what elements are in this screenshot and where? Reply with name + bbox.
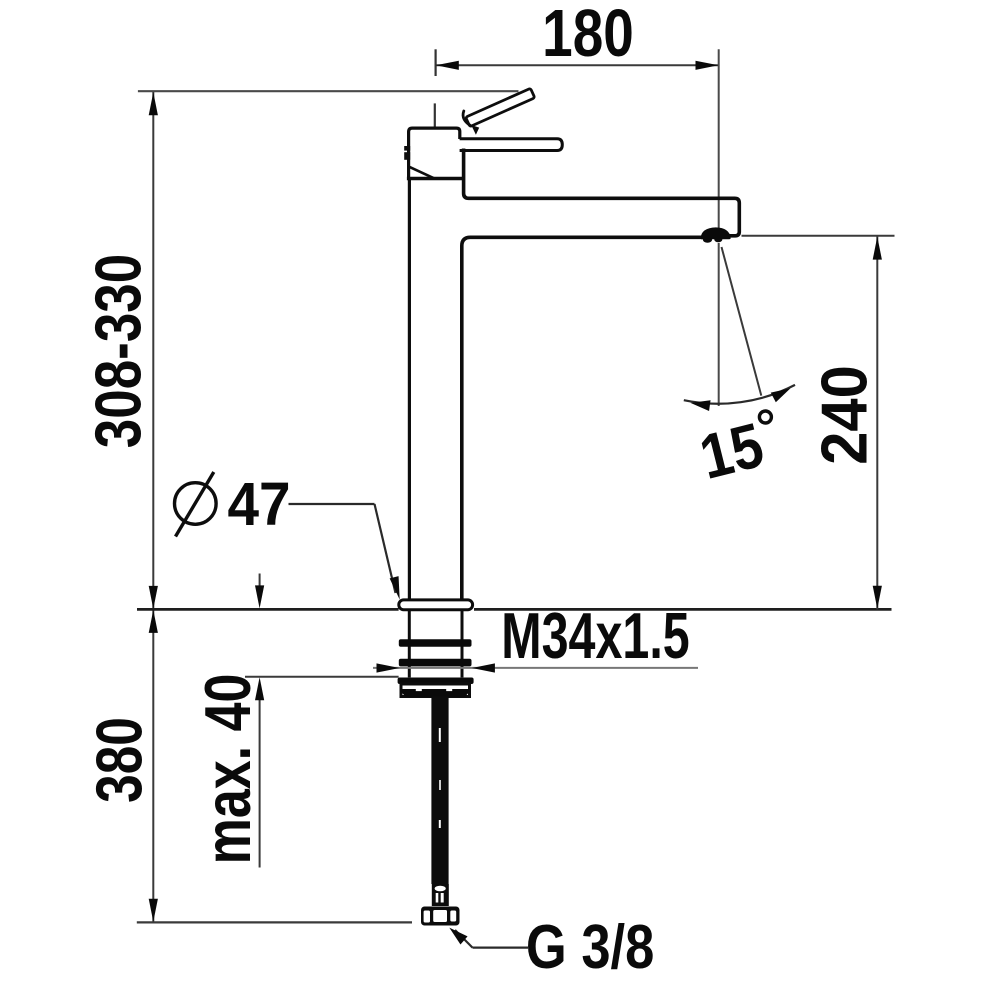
angle leg: 15 degree slant <box>722 247 762 396</box>
svg-text:max. 40: max. 40 <box>192 674 264 865</box>
svg-text:M34x1.5: M34x1.5 <box>501 600 689 673</box>
dimension line: left vertical (308-330 and 380) <box>152 92 154 922</box>
dimension line: max 40 upper segment <box>259 574 261 593</box>
faucet body: left nub upper <box>404 146 410 151</box>
extension line: top reference (top of lever) <box>138 90 519 92</box>
leader: diameter 47 diagonal <box>375 504 396 593</box>
arrowhead: 180 left <box>436 61 459 70</box>
svg-text:380: 380 <box>84 717 156 803</box>
faucet body: cartridge block <box>409 128 460 179</box>
arrowhead: 240 top (up) <box>873 237 882 260</box>
extension tick: faucet axis lower <box>434 103 436 127</box>
thread ring 1 <box>399 639 472 647</box>
pipe fleck 2 <box>439 780 441 790</box>
arrowhead: left dim mid (up) <box>149 610 158 633</box>
spout: neck, top edge and outlet end <box>464 149 740 236</box>
shank tube right <box>461 610 464 678</box>
fitting slot left <box>436 893 439 903</box>
dimension line: max 40 lower segment <box>259 694 261 868</box>
arrowhead: left dim bottom (down) <box>149 899 158 922</box>
extension tick: faucet axis upper <box>435 49 437 76</box>
spout: bottom edge and column right edge <box>462 237 705 599</box>
G3/8 leader diagonal <box>455 930 473 948</box>
diameter symbol circle <box>175 483 217 525</box>
leader: diameter 47 horizontal <box>289 503 375 505</box>
arrowhead: diameter 47 <box>390 576 405 601</box>
degree symbol <box>759 411 771 423</box>
pipe fleck 1 <box>439 728 441 742</box>
mounting nut body <box>401 684 470 697</box>
aerator drip right <box>714 237 722 242</box>
extension line: countertop right <box>474 608 892 611</box>
G3/8 end nut <box>421 907 460 926</box>
pipe fleck 3 <box>439 820 441 828</box>
G3/8 leader horizontal <box>473 946 529 948</box>
faucet body: chamfer line <box>409 167 434 179</box>
nut window left <box>424 911 430 923</box>
angle arc: 15 degrees <box>684 385 795 404</box>
pipe end fitting <box>432 884 449 906</box>
faucet body: left nub lower <box>404 152 410 160</box>
diameter symbol slash <box>176 472 214 537</box>
arrowhead: 240 bottom (down) <box>873 586 882 609</box>
svg-text:180: 180 <box>542 0 634 70</box>
arrowhead: left dim mid (down) <box>149 586 158 609</box>
svg-text:240: 240 <box>808 365 881 465</box>
nut notch left <box>416 689 422 692</box>
svg-text:G 3/8: G 3/8 <box>526 913 654 982</box>
fitting highlight arc <box>435 886 446 892</box>
lever: base hook <box>463 111 470 125</box>
lever: base wedge <box>471 125 479 135</box>
aerator outlet blob <box>701 227 731 239</box>
svg-text:308-330: 308-330 <box>81 254 154 448</box>
extension line: 240 top reference <box>742 235 895 237</box>
angle leg: vertical below outlet <box>718 243 720 406</box>
arrowhead: G3/8 <box>446 924 468 945</box>
mounting nut bottom <box>401 689 470 697</box>
arrowhead: M34 right <box>472 663 495 672</box>
base flange <box>399 600 473 610</box>
svg-text:47: 47 <box>227 471 290 538</box>
extension line: bottom reference <box>137 921 412 923</box>
nut window middle <box>433 910 447 922</box>
block bottom joint line <box>407 177 464 181</box>
M34 leader line <box>373 667 698 669</box>
aerator drip left <box>703 237 712 243</box>
arrowhead: max40 top (down) <box>255 585 264 608</box>
supply pipe <box>431 697 448 885</box>
fitting slot right <box>441 893 444 903</box>
nut notch right <box>446 689 452 692</box>
arrowhead: 180 right <box>696 61 719 70</box>
lever: rest position bar <box>460 139 563 151</box>
shank tube left <box>408 610 411 678</box>
extension line: spout outlet vertical (180 right / 15 deg pivot) <box>718 49 720 228</box>
dimension line: 240 vertical <box>876 236 878 610</box>
arrowhead: M34 left <box>377 663 400 672</box>
lever: raised position bar <box>466 88 535 126</box>
dimension line: 180 horizontal <box>436 64 719 66</box>
arrowhead: max40 bottom (up) <box>255 677 264 700</box>
washer bar <box>398 678 474 685</box>
arrowhead: left dim top (up) <box>149 92 158 115</box>
extension line: max 40 bottom reference <box>245 676 399 678</box>
arrowhead: arc right <box>771 384 793 403</box>
arrowhead: arc left <box>690 398 711 411</box>
thread ring 2 <box>399 659 472 667</box>
column: left edge <box>408 180 411 600</box>
extension line: countertop left <box>137 608 399 611</box>
nut window right <box>450 911 456 922</box>
